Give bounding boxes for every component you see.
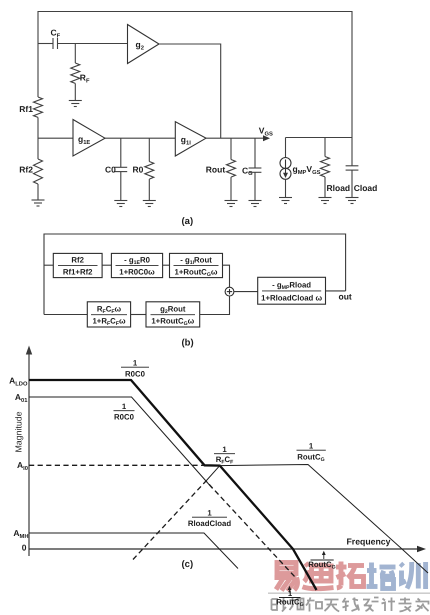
curve A_LDO thick bbox=[29, 380, 317, 590]
svg-text:(c): (c) bbox=[182, 559, 194, 570]
node V_GS arrowhead bbox=[263, 135, 270, 141]
wire C_F row left bbox=[38, 43, 53, 45]
wire input to block Rf2/(Rf1+Rf2) bbox=[44, 264, 53, 266]
svg-text:- g1IRout: - g1IRout bbox=[180, 256, 212, 267]
wire Rout tap bbox=[230, 138, 232, 159]
wire C_G tap bbox=[254, 138, 256, 168]
svg-text:RoutCG: RoutCG bbox=[297, 453, 324, 464]
resistor Rf1 bbox=[34, 97, 43, 117]
wire C_G to ground bbox=[254, 172, 256, 200]
wire C0 to ground bbox=[120, 172, 122, 201]
resistor Rload bbox=[321, 157, 330, 177]
x axis Frequency (0 level) bbox=[29, 548, 420, 550]
ground Cload bbox=[346, 197, 359, 199]
svg-text:0: 0 bbox=[22, 543, 27, 553]
watermark gray char pin bbox=[290, 598, 304, 611]
svg-text:Rout: Rout bbox=[206, 165, 226, 175]
op-amp g1I bbox=[175, 122, 206, 156]
block B3 -g1IRout/(1+RoutCGw) bbox=[170, 253, 223, 277]
svg-text:1+RloadCload ω: 1+RloadCload ω bbox=[261, 294, 322, 303]
svg-text:- gMPRload: - gMPRload bbox=[272, 281, 311, 292]
ground R0 bbox=[143, 200, 156, 202]
capacitor Cload bbox=[346, 165, 359, 167]
wire B2 to B3 bbox=[163, 264, 170, 266]
svg-text:1+R0C0ω: 1+R0C0ω bbox=[119, 268, 155, 277]
resistor Rf2 bbox=[34, 159, 43, 184]
ground C0 bbox=[114, 200, 127, 202]
watermark char pei bbox=[369, 563, 374, 588]
wire Rload drop bbox=[324, 138, 326, 157]
svg-text:Rf1+Rf2: Rf1+Rf2 bbox=[63, 268, 93, 277]
svg-text:(b): (b) bbox=[182, 338, 194, 349]
WATERMARK (drawn first, figure lines go on top) bbox=[268, 562, 430, 612]
resistor R0 bbox=[145, 162, 154, 180]
wire V_GS output row bbox=[206, 137, 267, 139]
watermark char yi bbox=[277, 563, 296, 574]
wire B6 to summer bbox=[200, 296, 230, 315]
watermark gray char he bbox=[306, 598, 322, 612]
ground Rout bbox=[225, 200, 238, 202]
summing junction bbox=[225, 287, 234, 296]
svg-text:1: 1 bbox=[309, 442, 314, 451]
y axis Magnitude bbox=[28, 351, 30, 556]
arrow marker for lower 1/RoutCG label bbox=[289, 588, 291, 593]
svg-text:R0C0: R0C0 bbox=[125, 370, 146, 379]
svg-text:Frequency: Frequency bbox=[347, 537, 391, 547]
node out wire bbox=[326, 290, 346, 292]
block B5 RFCFw/(1+RFCFw) bbox=[87, 302, 130, 327]
wire summer to B4 bbox=[234, 291, 258, 293]
svg-text:1+RoutCGω: 1+RoutCGω bbox=[175, 268, 218, 279]
curve A_MH level bbox=[29, 533, 238, 569]
watermark char xun bbox=[401, 564, 404, 567]
ground current source bbox=[279, 197, 292, 199]
svg-text:g2Rout: g2Rout bbox=[160, 305, 186, 316]
wire Cload to ground bbox=[351, 170, 353, 197]
wire R_F to ground bbox=[74, 83, 76, 100]
svg-text:Rf1: Rf1 bbox=[19, 104, 33, 114]
curve A_01 thin bbox=[29, 397, 213, 489]
svg-text:Cload: Cload bbox=[354, 183, 378, 193]
curve feedforward band: rise flat fall bbox=[206, 465, 428, 574]
watermark gray char she2 bbox=[363, 598, 379, 612]
wire input to B5 bbox=[44, 314, 87, 316]
wire B5 to B6 bbox=[131, 314, 146, 316]
watermark gray char she bbox=[272, 598, 287, 612]
watermark gray char jia bbox=[416, 599, 429, 612]
op-amp g2 bbox=[128, 25, 160, 64]
wire feedback loop top bbox=[44, 234, 346, 315]
arrow marker for 1/RoutCG axis label bbox=[323, 553, 325, 559]
wire Cload drop bbox=[351, 138, 353, 166]
watermark underline bbox=[268, 592, 430, 594]
wire g1E output row bbox=[105, 137, 175, 139]
svg-text:RoutCG: RoutCG bbox=[308, 560, 335, 571]
svg-text:Rf2: Rf2 bbox=[71, 256, 84, 265]
ground Rf2 bbox=[32, 199, 45, 201]
wire B1 to B2 bbox=[102, 264, 111, 266]
current source gMP VGS bbox=[280, 158, 291, 169]
watermark gray char tian bbox=[325, 600, 340, 612]
resistor R_F bbox=[71, 63, 80, 83]
wire current source drop bbox=[285, 138, 287, 158]
capacitor C0 bbox=[114, 166, 127, 168]
svg-text:Rload: Rload bbox=[327, 183, 351, 193]
wire Rout to ground bbox=[230, 177, 232, 200]
block B1 Rf2/(Rf1+Rf2) bbox=[53, 253, 102, 277]
svg-text:RloadCload: RloadCload bbox=[188, 519, 232, 528]
ground R_F bbox=[69, 100, 82, 102]
block B4 -gMPRload/(1+RloadCload w) bbox=[258, 277, 326, 304]
wire C0 tap bbox=[120, 138, 122, 167]
wire C_F to g2 input bbox=[58, 43, 128, 45]
wire R0 tap bbox=[148, 138, 150, 161]
svg-text:RoutCG: RoutCG bbox=[276, 598, 303, 609]
block B6 g2Rout/(1+RoutCGw) bbox=[146, 302, 200, 327]
resistor Rout bbox=[227, 160, 236, 178]
label pole 1/RoutCG on axis bbox=[311, 559, 334, 561]
svg-text:1+RFCFω: 1+RFCFω bbox=[92, 317, 126, 328]
node A divider tap to g1E input bbox=[38, 137, 73, 139]
wire load rail bbox=[286, 137, 353, 139]
watermark gray char xian bbox=[343, 598, 360, 612]
wire B3 to summer bbox=[223, 265, 230, 287]
svg-text:R0C0: R0C0 bbox=[114, 413, 135, 422]
dashed bandpass RloadCload bbox=[133, 481, 295, 577]
svg-text:R0: R0 bbox=[133, 165, 144, 175]
capacitor C_F bbox=[52, 38, 54, 49]
wire R0 to ground bbox=[148, 179, 150, 200]
svg-text:1: 1 bbox=[122, 402, 127, 411]
op-amp g1E bbox=[73, 120, 105, 157]
dashed level A_I0 bbox=[29, 464, 205, 466]
ground Rload bbox=[319, 197, 332, 199]
watermark gray char ji bbox=[382, 598, 396, 612]
svg-text:1+RoutCGω: 1+RoutCGω bbox=[151, 317, 194, 328]
svg-text:Magnitude: Magnitude bbox=[14, 411, 24, 452]
watermark char di bbox=[312, 566, 332, 581]
wire Rload to ground bbox=[324, 177, 326, 198]
wire current source to ground bbox=[285, 179, 287, 197]
svg-text:RFCFω: RFCFω bbox=[97, 305, 122, 316]
capacitor C_G bbox=[249, 167, 262, 169]
ground C_G bbox=[249, 200, 262, 202]
svg-text:Rf2: Rf2 bbox=[19, 165, 33, 175]
wire R_F tap bbox=[74, 44, 76, 64]
block B2 -g1ER0/(1+R0C0w) bbox=[111, 253, 162, 277]
svg-text:out: out bbox=[339, 292, 352, 302]
svg-text:C0: C0 bbox=[105, 165, 116, 175]
watermark char tuo bbox=[339, 562, 344, 586]
svg-text:1: 1 bbox=[207, 509, 212, 518]
svg-text:1: 1 bbox=[133, 359, 138, 368]
svg-text:1: 1 bbox=[222, 445, 227, 454]
svg-text:(a): (a) bbox=[182, 216, 194, 227]
wire g2 output bbox=[159, 44, 221, 138]
wire top feedback rail bbox=[38, 12, 352, 138]
watermark gray char zhuan bbox=[399, 598, 412, 612]
